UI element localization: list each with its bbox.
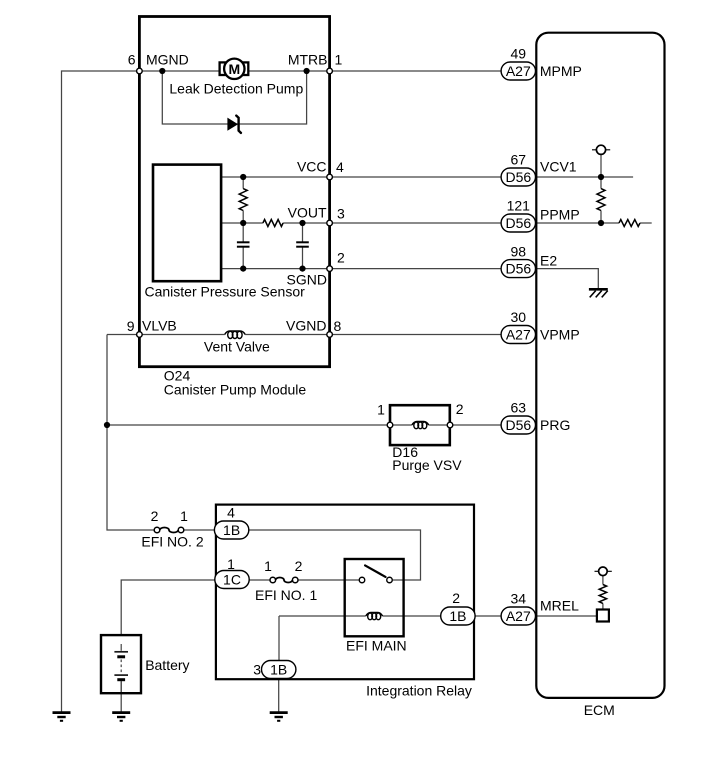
svg-text:A27: A27 (506, 327, 531, 343)
canister pump module O24 box (139, 17, 329, 367)
svg-text:PRG: PRG (540, 417, 570, 433)
pin number 2 label (337, 250, 345, 266)
svg-text:34: 34 (511, 591, 527, 607)
wire relay coil line to pin 2 (1B) (279, 615, 441, 617)
ECM box (536, 33, 664, 698)
svg-text:1: 1 (180, 508, 188, 524)
wire relay pin 4 to EFI MAIN switch contact (249, 530, 421, 580)
ECM pin 49 label (511, 46, 527, 62)
leak detection pump caption (169, 81, 303, 97)
integration relay caption (366, 682, 472, 698)
EFI NO.2 caption (141, 534, 203, 550)
ECM pin 63 label (511, 400, 527, 416)
wire diode bypass branch around motor (162, 71, 306, 124)
fuse F1 pin 2 label (295, 558, 303, 574)
fuse F1 pin 1 label (264, 558, 272, 574)
ECM pin 30 label (511, 309, 527, 325)
svg-text:30: 30 (511, 309, 527, 325)
wire MGND-MTRB main motor line inside pump module (139, 70, 329, 72)
wire battery positive up to relay pin 1C (121, 580, 215, 635)
svg-text:MREL: MREL (540, 598, 579, 614)
connector D56 pin 67 (VCV1) (501, 168, 535, 186)
svg-text:EFI NO. 2: EFI NO. 2 (141, 534, 203, 550)
ECM pin 34 label (511, 591, 527, 607)
pin 2 SGND module terminal (327, 266, 333, 272)
pin number 8 label (334, 318, 342, 334)
inductor L2 purge VSV solenoid coil (412, 422, 429, 429)
svg-text:VOUT: VOUT (288, 205, 327, 221)
net PRG label (540, 417, 570, 433)
pin 6 MGND module terminal (137, 68, 143, 74)
svg-text:Vent Valve: Vent Valve (204, 339, 270, 355)
svg-text:EFI MAIN: EFI MAIN (346, 638, 407, 654)
node VCC label (297, 159, 327, 175)
relay pin 2 label (452, 590, 460, 606)
svg-text:EFI NO. 1: EFI NO. 1 (255, 587, 317, 603)
integration relay box (216, 505, 474, 680)
svg-text:A27: A27 (506, 608, 531, 624)
svg-text:67: 67 (511, 152, 527, 168)
pin 2 purge VSV terminal (447, 422, 453, 428)
wire MREL pull-up vertical (602, 576, 604, 610)
wire VCV1 internal: ECM edge to pull-up junction and beyond (537, 176, 634, 178)
fuse F2 pin 1 label (180, 508, 188, 524)
wire SGND net: sensor to pin 2, to ECM D56-98 (E2) (221, 268, 501, 270)
svg-text:121: 121 (507, 198, 531, 214)
battery B1 cells (114, 644, 128, 692)
ground G1 left rail earth ground (53, 713, 71, 721)
wire capacitor C2 vertical at x=302.5 (VOUT to SGND) (302, 223, 304, 269)
wire PRG net: Purge VSV pin 2 to ECM D56-63 (429, 424, 502, 426)
relay pin 3 label (253, 662, 261, 678)
svg-text:Canister Pressure Sensor: Canister Pressure Sensor (145, 284, 306, 300)
MREL driver square symbol (597, 610, 609, 622)
svg-text:Canister Pump Module: Canister Pump Module (164, 381, 307, 397)
connector 1B relay pin 2 (441, 607, 475, 625)
svg-text:2: 2 (295, 558, 303, 574)
battery caption (145, 657, 189, 673)
svg-text:MTRB: MTRB (288, 52, 328, 68)
wire VOUT net: sensor to resistor, to pin 3, to ECM D56-121 (PPMP) (221, 222, 501, 224)
canister pressure sensor box (153, 165, 221, 282)
svg-text:MPMP: MPMP (540, 63, 582, 79)
svg-text:49: 49 (511, 46, 527, 62)
svg-text:4: 4 (227, 505, 235, 521)
junction dot PPMP internal (598, 220, 604, 226)
pin 4 VCC module terminal (327, 174, 333, 180)
connector 1B relay pin 3 (262, 661, 296, 679)
resistor R3 VCV1-PPMP internal pull-up (597, 189, 605, 211)
resistor R4 PPMP series internal (619, 220, 640, 227)
svg-text:D56: D56 (505, 261, 531, 277)
wire relay pin 2 to ECM A27-34 (MREL net) (475, 615, 501, 617)
battery box (101, 635, 141, 693)
junction dot VCV1 pull-up (598, 174, 604, 180)
svg-text:A27: A27 (506, 63, 531, 79)
ECM pin 67 label (511, 152, 527, 168)
wire E2 internal to chassis ground (537, 269, 599, 288)
svg-text:2: 2 (337, 250, 345, 266)
svg-text:E2: E2 (540, 253, 557, 269)
junction dot PRG branch on VLVB rail (104, 422, 110, 428)
junction dot VOUT at sensor divider (240, 220, 246, 226)
wire VLVB net: pin 9 left and down to PRG junction and EFI NO.2 fuse (107, 335, 154, 531)
net MREL label (540, 598, 579, 614)
svg-text:MGND: MGND (146, 52, 189, 68)
module ref O24 label (164, 368, 191, 384)
svg-text:4: 4 (336, 159, 344, 175)
chassis ground for E2 inside ECM (589, 289, 608, 297)
pin number 1 label (335, 52, 343, 68)
wire EFI NO.2 fuse to relay pin 4 (184, 529, 215, 531)
svg-text:1: 1 (377, 402, 385, 418)
switch S1 EFI MAIN relay contacts (359, 565, 392, 582)
net PPMP label (540, 207, 580, 223)
svg-text:VGND: VGND (286, 318, 326, 334)
svg-text:ECM: ECM (584, 702, 615, 718)
connector D56 pin 98 (E2) (501, 260, 535, 278)
capacitor C1 sensor internal (237, 242, 250, 246)
wire MREL inside ECM to output square (537, 615, 597, 617)
junction dot SGND at sensor divider (240, 266, 246, 272)
pin 9 VLVB module terminal (137, 332, 143, 338)
svg-text:M: M (228, 61, 240, 77)
relay pin 1 label above 1C (227, 556, 235, 572)
svg-text:1C: 1C (223, 572, 241, 588)
wire relay 1C to EFI NO.1 fuse (249, 579, 270, 581)
junction dot VCC at sensor divider (240, 174, 246, 180)
svg-text:1B: 1B (449, 608, 466, 624)
pin number 4 label (336, 159, 344, 175)
wire MGND net: pin 6 to left rail and down to ground (62, 71, 140, 713)
svg-text:VCV1: VCV1 (540, 159, 577, 175)
capacitor C2 at VOUT/pin3 (296, 242, 309, 246)
svg-text:63: 63 (511, 400, 527, 416)
wire VCC net: sensor to pin 4 and on to ECM D56-67 (VCV1) (221, 176, 501, 178)
wire relay pin 3 down to ground (278, 679, 280, 713)
wire pull-up vertical from battery terminal to VCV1 junction (600, 154, 602, 223)
svg-text:D56: D56 (505, 215, 531, 231)
vent valve caption (204, 339, 270, 355)
svg-text:Leak Detection Pump: Leak Detection Pump (169, 81, 303, 97)
svg-text:2: 2 (151, 508, 159, 524)
resistor R2 series in VOUT line (263, 220, 283, 227)
svg-text:2: 2 (456, 401, 464, 417)
ground G3 relay pin 3 earth ground (270, 713, 288, 721)
fuse F1 EFI NO.1 (270, 577, 298, 583)
svg-text:Purge VSV: Purge VSV (392, 457, 462, 473)
wire VGND to ECM A27-30 (VPMP net) (330, 334, 502, 336)
connector A27 pin 34 (MREL) (501, 607, 535, 625)
node MTRB label (288, 52, 328, 68)
svg-text:2: 2 (452, 590, 460, 606)
svg-text:1B: 1B (223, 522, 240, 538)
node SGND label (287, 272, 327, 288)
wire battery negative down to ground (120, 681, 122, 713)
wire PPMP internal: ECM edge through junction to series resistor (537, 222, 652, 224)
svg-text:VCC: VCC (297, 159, 327, 175)
svg-text:D56: D56 (505, 417, 531, 433)
pin 3 VOUT module terminal (327, 220, 333, 226)
fuse F2 EFI NO.2 (154, 527, 184, 533)
node MGND label (146, 52, 189, 68)
junction dot at MGND motor branch (159, 68, 165, 74)
svg-text:D56: D56 (505, 169, 531, 185)
svg-text:98: 98 (511, 243, 527, 259)
svg-text:1: 1 (264, 558, 272, 574)
EFI NO.1 caption (255, 587, 317, 603)
svg-text:9: 9 (127, 318, 135, 334)
purge VSV pin 2 label (456, 401, 464, 417)
junction dot SGND at C2 (299, 266, 305, 272)
wire PRG net: junction to Purge VSV pin 1 (107, 424, 412, 426)
connector D56 pin 63 (PRG) (501, 416, 535, 434)
wire MTRB to ECM pin A27-49 (MPMP net) (330, 70, 502, 72)
canister pressure sensor caption (145, 284, 306, 300)
svg-text:6: 6 (128, 52, 136, 68)
purge VSV D16 box (390, 405, 450, 445)
svg-text:Battery: Battery (145, 657, 189, 673)
net E2 label (540, 253, 557, 269)
battery terminal symbol above VCV1 pull-up (592, 145, 610, 154)
inductor L3 EFI MAIN relay coil (366, 613, 383, 620)
svg-text:PPMP: PPMP (540, 207, 580, 223)
node VGND label (286, 318, 326, 334)
svg-text:3: 3 (253, 662, 261, 678)
motor M1 leak detection pump motor (220, 59, 249, 79)
ref D16 label (392, 444, 418, 460)
ECM pin 98 label (511, 243, 527, 259)
connector D56 pin 121 (PPMP) (501, 214, 535, 232)
wire vent valve line VLVB-VGND inside module (139, 334, 329, 336)
battery terminal symbol above MREL pull-up (595, 567, 612, 576)
net MPMP label (540, 63, 582, 79)
pin 1 MTRB module terminal (327, 68, 333, 74)
canister pump module caption (164, 381, 307, 397)
purge VSV pin 1 label (377, 402, 385, 418)
svg-text:1B: 1B (270, 662, 287, 678)
resistor R5 MREL pull-up (599, 585, 606, 604)
junction dot VOUT at C2 (299, 220, 305, 226)
EFI MAIN caption (346, 638, 407, 654)
purge VSV caption (392, 457, 462, 473)
svg-text:1: 1 (335, 52, 343, 68)
junction dot at MTRB motor branch (304, 68, 310, 74)
zener diode D in motor bypass branch (228, 116, 241, 133)
svg-text:8: 8 (334, 318, 342, 334)
connector 1B relay pin 4 (214, 521, 248, 539)
net VPMP label (540, 327, 580, 343)
fuse F2 pin 2 label (151, 508, 159, 524)
wire EFI NO.1 fuse to EFI MAIN switch contact (298, 579, 359, 581)
svg-text:VLVB: VLVB (142, 318, 177, 334)
wire coil branch down to relay pin 3 (1B) (278, 616, 280, 661)
pin number 6 label (128, 52, 136, 68)
svg-text:VPMP: VPMP (540, 327, 580, 343)
wire sensor internal vertical at x=243 (VCC to SGND) (242, 177, 244, 269)
node VLVB label (142, 318, 177, 334)
inductor L1 vent valve solenoid coil (225, 331, 246, 339)
svg-text:3: 3 (337, 206, 345, 222)
resistor R1 sensor internal (VCC to VOUT) (239, 189, 247, 211)
net VCV1 label (540, 159, 577, 175)
svg-text:Integration Relay: Integration Relay (366, 682, 472, 698)
svg-text:1: 1 (227, 556, 235, 572)
ground G2 battery earth ground (112, 713, 130, 721)
node VOUT label (288, 205, 327, 221)
pin number 9 label (127, 318, 135, 334)
connector A27 pin 49 (MPMP) (501, 62, 535, 80)
pin number 3 label (337, 206, 345, 222)
connector 1C relay pin 1 (215, 571, 249, 589)
pin 8 VGND module terminal (327, 332, 333, 338)
connector A27 pin 30 (VPMP) (501, 326, 535, 344)
EFI MAIN relay box (345, 559, 404, 636)
ECM caption (584, 702, 615, 718)
pin 1 purge VSV terminal (387, 422, 393, 428)
relay pin 4 label (227, 505, 235, 521)
ECM pin 121 label (507, 198, 531, 214)
